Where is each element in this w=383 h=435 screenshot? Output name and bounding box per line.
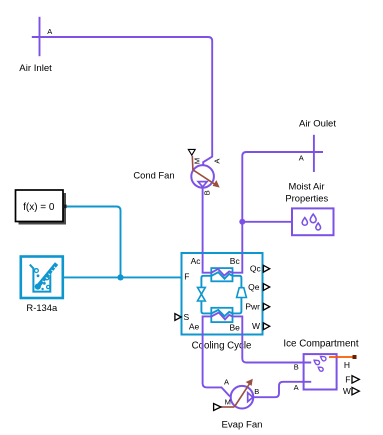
Air Oulet port cross — [313, 135, 315, 172]
wire: Ae to Evap Fan A — [203, 335, 231, 397]
svg-text:B: B — [202, 190, 211, 195]
thermometer body — [37, 264, 56, 288]
svg-text:B: B — [294, 363, 299, 372]
R-134a block (Two-Phase Fluid Properties) — [21, 257, 63, 299]
svg-text:A: A — [294, 383, 299, 392]
solver block f(x)=0 U_solver — [16, 190, 64, 222]
svg-text:Ac: Ac — [191, 256, 202, 266]
Cond Fan B outlet triangle — [198, 182, 207, 187]
Moist Air Properties droplets — [302, 214, 320, 230]
svg-text:H: H — [344, 360, 350, 370]
internal purple path: Ae to Be through evaporator — [203, 313, 243, 335]
svg-text:B: B — [254, 387, 259, 396]
Ice Compartment F, W output triangles — [352, 376, 359, 395]
wire: R-134a to F port of Cooling Cycle — [64, 276, 182, 278]
svg-text:Moist Air: Moist Air — [289, 181, 325, 192]
solver block port square — [63, 205, 66, 209]
heat exchanger rects — [211, 268, 232, 281]
Cond Fan brown shaft and arrow — [192, 156, 216, 185]
wire: Air Oulet to junction, down to Bc — [242, 152, 323, 253]
svg-text:Pwr: Pwr — [245, 302, 260, 312]
svg-text:Cond Fan: Cond Fan — [133, 170, 174, 181]
svg-text:Ae: Ae — [189, 322, 200, 332]
Cond Fan M input triangle (unconnected PS port) — [188, 149, 195, 155]
svg-text:A: A — [47, 27, 52, 36]
svg-text:F: F — [345, 374, 350, 384]
Air Inlet port cross — [39, 17, 41, 56]
svg-text:Be: Be — [230, 323, 241, 333]
Evap Fan circle — [231, 386, 254, 409]
Cooling Cycle block — [182, 253, 263, 335]
thermometer ticks — [43, 267, 56, 282]
junction dot (two-phase) — [117, 274, 123, 280]
wire: Evap Fan B to Ice Compartment A — [253, 382, 311, 397]
wire: junction to Moist Air Properties — [242, 221, 292, 223]
internal purple path: Ac to Bc through condenser — [203, 253, 243, 276]
svg-text:Qe: Qe — [248, 282, 260, 292]
svg-text:A: A — [224, 378, 229, 387]
svg-text:Air Inlet: Air Inlet — [19, 63, 52, 74]
Evap Fan brown shaft and arrow — [221, 384, 249, 407]
solver block f(x)=0 shadow — [19, 193, 67, 225]
Evap Fan M input triangle (unconnected PS port) — [214, 404, 221, 411]
svg-text:M: M — [225, 398, 231, 407]
wire: Air Inlet to Cond Fan A (moist air purple) — [32, 37, 212, 165]
wire: solver to junction (two-phase cyan) — [67, 207, 121, 278]
thermometer bulb — [35, 284, 41, 290]
S input triangle (unconnected PS port) — [175, 314, 181, 321]
svg-text:M: M — [192, 158, 201, 164]
svg-text:F: F — [184, 271, 189, 281]
Evap Fan B outlet triangle — [248, 393, 253, 402]
wire: Be to Ice Compartment B — [242, 335, 311, 363]
junction dot (moist air) — [239, 219, 245, 225]
Moist Air Properties block — [292, 208, 334, 235]
svg-text:Qc: Qc — [250, 264, 262, 274]
bubbles — [35, 269, 39, 273]
Cooling Cycle port labels — [184, 256, 262, 333]
svg-text:W: W — [343, 386, 351, 396]
compressor — [237, 288, 247, 298]
internal cyan refrigerant loop — [201, 272, 241, 316]
expansion valve — [198, 287, 206, 301]
Cooling Cycle output triangles Qc Qe Pwr W — [263, 265, 269, 329]
svg-text:S: S — [184, 312, 190, 322]
wire: Cond Fan B down to Cooling Cycle Ac — [202, 188, 204, 253]
svg-text:R-134a: R-134a — [26, 302, 58, 313]
beaker — [30, 265, 51, 292]
Ice Compartment block border — [304, 354, 337, 389]
svg-text:A: A — [299, 154, 304, 163]
svg-text:Air Oulet: Air Oulet — [299, 119, 336, 130]
svg-text:A: A — [213, 159, 222, 164]
svg-text:Properties: Properties — [285, 193, 328, 204]
svg-text:Evap Fan: Evap Fan — [221, 420, 262, 431]
Cond Fan circle — [191, 165, 214, 188]
svg-text:Ice Compartment: Ice Compartment — [283, 339, 358, 350]
svg-text:W: W — [252, 321, 260, 331]
svg-text:f(x) = 0: f(x) = 0 — [23, 202, 55, 213]
svg-text:Bc: Bc — [230, 256, 241, 266]
Ice Compartment H port unconnected wire (thermal orange) — [329, 356, 353, 358]
Ice Compartment droplets — [313, 355, 327, 372]
